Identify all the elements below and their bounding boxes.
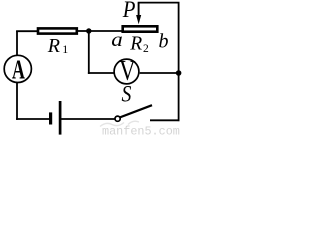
wire: top-left horizontal (corner to R1) [16, 30, 38, 32]
junction node (voltmeter / right rail) [176, 70, 182, 76]
resistor R1 [38, 28, 77, 33]
svg-text:manfen5.com: manfen5.com [102, 125, 180, 136]
wire: junction to R2 terminal a [89, 30, 123, 32]
svg-text:S: S [121, 81, 131, 107]
watermark cursive smudge [100, 121, 139, 126]
switch S (blade) [120, 105, 152, 117]
svg-text:2: 2 [143, 43, 149, 55]
junction node (R1 / R2-a / voltmeter branch) [86, 28, 91, 33]
label R2 [129, 33, 149, 55]
svg-text:R: R [47, 35, 60, 57]
svg-text:b: b [159, 31, 169, 53]
wire: branch corner to voltmeter [88, 72, 114, 74]
wire: left rail lower (ammeter to bottom-left corner) [16, 83, 18, 120]
potentiometer R2 (track) [123, 26, 158, 31]
svg-text:1: 1 [62, 42, 68, 56]
label R1 [47, 35, 69, 57]
switch S (pivot) [115, 116, 120, 121]
svg-text:P: P [122, 0, 136, 22]
ammeter A [4, 55, 31, 86]
battery cell (short negative plate) [49, 112, 52, 124]
svg-text:a: a [111, 28, 123, 50]
wire: voltmeter branch vertical (junction down) [88, 31, 90, 74]
svg-text:R: R [129, 33, 142, 54]
wiper arrow of R2 [136, 3, 141, 25]
svg-text:A: A [12, 55, 25, 86]
wire: wiper to top-right corner [138, 2, 180, 4]
wire: left rail upper (top-left corner down to ammeter) [16, 31, 18, 56]
voltmeter V [114, 56, 139, 87]
wire: R1 to junction node [78, 30, 91, 32]
wire: switch to bottom-right corner [150, 119, 180, 121]
wire: battery to switch pivot [61, 118, 114, 120]
wire: voltmeter to right rail [140, 72, 179, 74]
wire: bottom-left horizontal (corner to battery) [16, 118, 49, 120]
battery cell (long positive plate) [59, 101, 62, 135]
wire: right rail [178, 3, 180, 122]
